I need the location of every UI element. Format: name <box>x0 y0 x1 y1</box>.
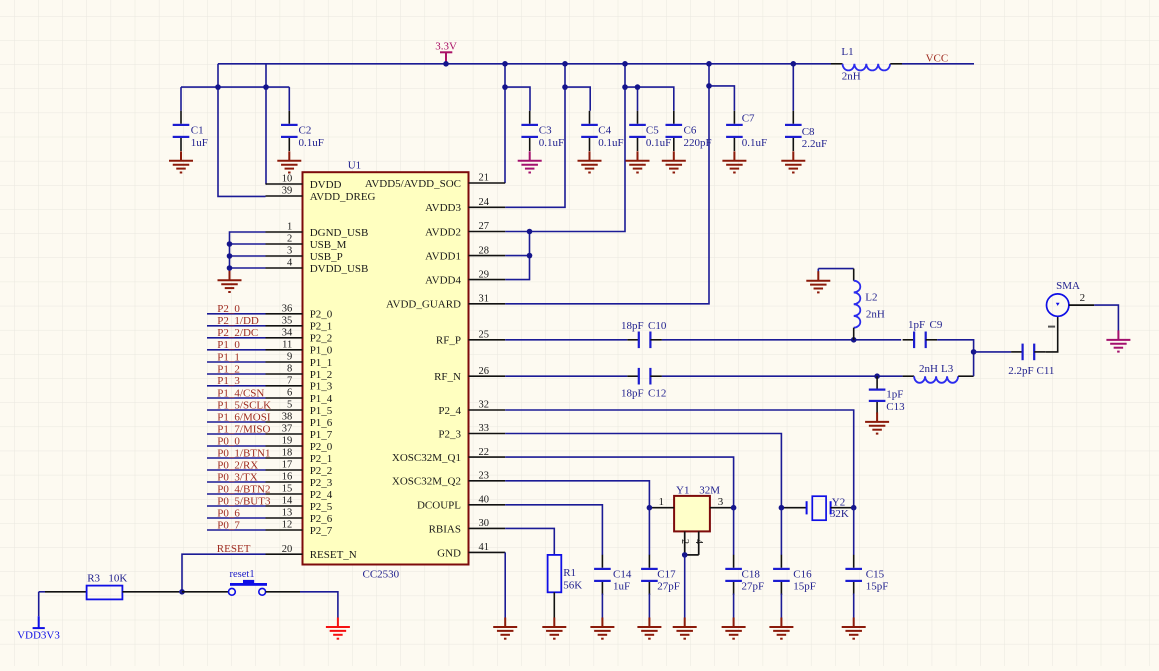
capacitor C16 <box>780 555 782 568</box>
junction <box>215 84 221 90</box>
net P1_0 <box>207 339 266 351</box>
svg-text:39: 39 <box>282 186 293 197</box>
svg-text:C9: C9 <box>930 319 943 331</box>
svg-text:P1_0: P1_0 <box>310 345 333 357</box>
svg-text:1uF: 1uF <box>191 137 208 149</box>
svg-text:8: 8 <box>287 364 292 375</box>
wire USB common <box>230 232 266 268</box>
capacitor C8 <box>792 111 794 124</box>
inductor L1 <box>831 63 843 65</box>
wire C11 node to C11 <box>974 351 1012 353</box>
svg-text:2.2uF: 2.2uF <box>802 138 827 150</box>
svg-text:L2: L2 <box>865 291 877 303</box>
junction <box>706 61 712 67</box>
wire C8 drop <box>792 64 794 111</box>
junction <box>779 505 785 511</box>
capacitor C10 <box>627 339 639 341</box>
wire RF_N left <box>505 375 627 377</box>
pin 9 P1_1 <box>266 352 333 369</box>
pin 16 P2_3 <box>266 472 333 489</box>
junction <box>502 61 508 67</box>
svg-text:34: 34 <box>282 328 293 339</box>
svg-text:DVDD: DVDD <box>310 179 342 191</box>
pin 11 P1_0 <box>266 340 333 357</box>
net P2_1/DD <box>207 315 266 327</box>
inductor L3 <box>903 375 915 377</box>
net P0_7 <box>207 519 266 531</box>
svg-text:7: 7 <box>287 376 292 387</box>
svg-text:11: 11 <box>282 340 292 351</box>
svg-text:P0_6: P0_6 <box>217 507 240 519</box>
ground <box>662 151 686 172</box>
pin 13 P2_6 <box>266 508 333 525</box>
wire RF_N middle <box>662 375 903 377</box>
svg-text:C15: C15 <box>866 568 885 580</box>
svg-text:P2_4: P2_4 <box>438 405 461 417</box>
svg-text:16: 16 <box>282 472 293 483</box>
svg-text:U1: U1 <box>348 160 361 172</box>
svg-text:AVDD1: AVDD1 <box>425 251 461 263</box>
svg-text:C12: C12 <box>648 387 666 399</box>
ground <box>673 618 697 639</box>
svg-text:18pF: 18pF <box>621 320 644 332</box>
pin 15 P2_4 <box>266 484 333 501</box>
svg-text:C6: C6 <box>684 124 697 136</box>
junction <box>562 61 568 67</box>
svg-text:18: 18 <box>282 448 293 459</box>
pin 3 USB_P <box>266 246 343 263</box>
svg-text:25: 25 <box>479 330 490 341</box>
svg-text:P1_3: P1_3 <box>310 381 333 393</box>
svg-text:220pF: 220pF <box>684 137 712 149</box>
svg-text:19: 19 <box>282 436 293 447</box>
pin 20 RESET_N <box>266 544 357 561</box>
net P1_3 <box>207 375 266 387</box>
ground <box>601 594 603 618</box>
capacitor C2 <box>288 111 290 124</box>
net P0_2/RX <box>207 459 266 471</box>
wire RF_P left <box>505 339 627 341</box>
pin 1 DGND_USB <box>266 222 369 239</box>
svg-text:32K: 32K <box>830 508 849 520</box>
pin 30 RBIAS <box>429 518 506 535</box>
crystal Y1 32M <box>649 485 733 555</box>
wire RF_P to C11 node <box>937 340 973 352</box>
svg-text:P2_0: P2_0 <box>217 303 240 315</box>
net P1_1 <box>207 351 266 363</box>
svg-text:33: 33 <box>479 423 490 434</box>
svg-text:18pF: 18pF <box>621 387 644 399</box>
ground <box>853 594 855 618</box>
wire 3.3V rail <box>218 63 831 65</box>
svg-text:23: 23 <box>479 471 490 482</box>
ground <box>780 594 782 618</box>
svg-text:DVDD_USB: DVDD_USB <box>310 263 369 275</box>
pin 14 P2_5 <box>266 496 333 513</box>
svg-text:0.1uF: 0.1uF <box>598 137 623 149</box>
junction <box>227 265 233 271</box>
junction <box>851 505 857 511</box>
svg-text:C18: C18 <box>742 568 761 580</box>
pin 12 P2_7 <box>266 520 333 537</box>
wire rail to pin27 (with C5 C6 branch) <box>505 64 625 232</box>
pin 6 P1_4 <box>266 388 333 405</box>
svg-text:C3: C3 <box>539 124 552 136</box>
svg-text:DCOUPL: DCOUPL <box>417 500 461 512</box>
wire C11 to SMA pin1 <box>1046 316 1058 352</box>
pin 29 AVDD4 <box>425 269 505 286</box>
svg-text:4: 4 <box>287 258 293 269</box>
svg-text:P1_1: P1_1 <box>217 351 240 363</box>
junction <box>179 589 185 595</box>
junction <box>971 349 977 355</box>
ground <box>169 151 193 172</box>
svg-text:P1_1: P1_1 <box>310 357 333 369</box>
capacitor C5 <box>637 111 639 124</box>
capacitor C15 <box>853 555 855 568</box>
svg-text:P0_4/BTN2: P0_4/BTN2 <box>217 483 270 495</box>
resistor R3 10K <box>39 573 179 600</box>
junction <box>562 84 568 90</box>
resistor R1 56K <box>505 528 582 592</box>
svg-text:31: 31 <box>479 294 490 305</box>
pin 36 P2_0 <box>266 304 333 321</box>
pin 39 AVDD_DREG <box>266 186 376 203</box>
junction <box>227 241 233 247</box>
pin 38 P1_6 <box>266 412 333 429</box>
svg-text:AVDD5/AVDD_SOC: AVDD5/AVDD_SOC <box>365 178 461 190</box>
junction <box>791 61 797 67</box>
svg-text:0.1uF: 0.1uF <box>646 137 671 149</box>
svg-text:AVDD4: AVDD4 <box>425 275 461 287</box>
svg-text:1pF: 1pF <box>908 319 925 331</box>
svg-text:AVDD2: AVDD2 <box>425 226 461 238</box>
svg-text:P2_4: P2_4 <box>310 489 333 501</box>
wire Y1 pin3 down to C18 <box>733 508 735 555</box>
svg-text:27pF: 27pF <box>657 581 680 593</box>
ground <box>518 151 542 172</box>
svg-text:P0_0: P0_0 <box>217 435 240 447</box>
svg-text:AVDD_DREG: AVDD_DREG <box>310 191 376 203</box>
svg-text:C2: C2 <box>299 124 312 136</box>
svg-text:P2_3: P2_3 <box>310 477 333 489</box>
wire Y1 pin1 down to C17 <box>648 508 650 555</box>
svg-text:2.2pF: 2.2pF <box>1008 365 1033 377</box>
power 3.3V <box>440 52 452 64</box>
svg-text:13: 13 <box>282 508 293 519</box>
connector SMA <box>1047 280 1095 326</box>
pin 25 RF_P <box>436 330 505 347</box>
svg-text:27: 27 <box>479 221 490 232</box>
svg-text:XOSC32M_Q1: XOSC32M_Q1 <box>392 452 461 464</box>
svg-text:C14: C14 <box>613 568 632 580</box>
pin 31 AVDD_GUARD <box>386 294 505 311</box>
junction <box>622 61 628 67</box>
pin 34 P2_2 <box>266 328 333 345</box>
wire P2_4 to Y2 right / C15 <box>505 410 854 508</box>
svg-text:22: 22 <box>479 447 490 458</box>
pin 21 AVDD5/AVDD_SOC <box>365 173 505 190</box>
svg-text:2: 2 <box>679 539 690 544</box>
svg-text:10: 10 <box>282 174 293 185</box>
junction <box>502 84 508 90</box>
svg-text:1uF: 1uF <box>613 581 630 593</box>
net P0_3/TX <box>207 471 266 483</box>
wire rail branch to pin10 <box>265 64 268 184</box>
ground <box>722 151 746 172</box>
svg-text:RESET: RESET <box>217 543 251 555</box>
svg-text:2nH: 2nH <box>866 309 885 321</box>
wire VCC <box>902 63 974 65</box>
svg-text:21: 21 <box>479 173 490 184</box>
svg-text:27pF: 27pF <box>742 581 765 593</box>
wire R1 to ground <box>553 592 555 617</box>
svg-text:P1_7/MISO: P1_7/MISO <box>217 423 270 435</box>
svg-text:RF_P: RF_P <box>436 335 461 347</box>
junction <box>527 229 533 235</box>
svg-text:P2_0: P2_0 <box>310 441 333 453</box>
wire rail to pin21 (with C3 branch) <box>504 64 506 183</box>
wire L3 up to C11 node <box>973 352 975 376</box>
svg-text:1: 1 <box>659 496 665 508</box>
svg-text:P2_1: P2_1 <box>310 321 333 333</box>
svg-text:P2_0: P2_0 <box>310 309 333 321</box>
junction <box>682 552 688 558</box>
svg-text:15pF: 15pF <box>866 581 889 593</box>
svg-text:6: 6 <box>287 388 292 399</box>
capacitor C1 <box>180 111 182 124</box>
ground <box>648 594 650 618</box>
svg-text:L1: L1 <box>841 46 853 58</box>
svg-text:C10: C10 <box>648 320 667 332</box>
svg-text:P1_5: P1_5 <box>310 405 333 417</box>
net P0_4/BTN2 <box>207 483 270 495</box>
junction <box>851 337 857 343</box>
pin 7 P1_3 <box>266 376 333 393</box>
svg-text:P2_3: P2_3 <box>438 428 461 440</box>
svg-text:P0_3/TX: P0_3/TX <box>217 471 257 483</box>
svg-text:4: 4 <box>693 539 704 544</box>
svg-text:9: 9 <box>287 352 292 363</box>
svg-text:P1_4: P1_4 <box>310 393 333 405</box>
pin 17 P2_2 <box>266 460 333 477</box>
svg-text:C16: C16 <box>793 568 812 580</box>
wire rail to pin24 (with C4 branch) <box>505 64 565 208</box>
svg-text:15pF: 15pF <box>793 581 816 593</box>
net P0_6 <box>207 507 266 519</box>
svg-text:P2_1: P2_1 <box>310 453 333 465</box>
capacitor C7 <box>733 111 735 124</box>
svg-text:24: 24 <box>479 197 490 208</box>
junction <box>647 505 653 511</box>
ground <box>578 151 602 172</box>
net P1_6/MOSI <box>207 411 271 423</box>
svg-text:5: 5 <box>287 400 292 411</box>
ground <box>733 594 735 618</box>
svg-text:41: 41 <box>479 542 490 553</box>
svg-text:P0_1/BTN1: P0_1/BTN1 <box>217 447 270 459</box>
svg-text:32M: 32M <box>699 485 720 497</box>
svg-text:1pF: 1pF <box>886 388 903 400</box>
svg-text:P2_2/DC: P2_2/DC <box>217 327 258 339</box>
svg-text:Y2: Y2 <box>832 496 845 508</box>
svg-text:L3: L3 <box>941 363 954 375</box>
svg-text:0.1uF: 0.1uF <box>742 137 767 149</box>
junction <box>263 84 269 90</box>
net P1_7/MISO <box>207 423 271 435</box>
wire pin41 GND down <box>504 552 506 617</box>
wire C1 drop <box>180 87 182 111</box>
svg-text:P1_2: P1_2 <box>310 369 333 381</box>
pin 33 P2_3 <box>438 423 505 440</box>
wire XOSC32M_Q2 to Y1 pin1 <box>505 481 649 508</box>
wire C1-C2 top link <box>181 86 289 88</box>
capacitor C6 <box>673 111 675 124</box>
capacitor C4 <box>589 111 591 124</box>
svg-text:2: 2 <box>287 234 292 245</box>
capacitor C14 <box>601 555 603 568</box>
pin 5 P1_5 <box>266 400 333 417</box>
pin 35 P2_1 <box>266 316 333 333</box>
svg-text:RF_N: RF_N <box>434 371 461 383</box>
pin 19 P2_0 <box>266 436 333 453</box>
svg-text:37: 37 <box>282 424 293 435</box>
net P2_2/DC <box>207 327 266 339</box>
svg-text:P2_5: P2_5 <box>310 501 333 513</box>
pin 27 AVDD2 <box>425 221 505 238</box>
wire AVDD1 AVDD4 link <box>505 232 529 280</box>
svg-text:reset1: reset1 <box>230 569 255 580</box>
svg-text:0.1uF: 0.1uF <box>299 137 324 149</box>
svg-text:AVDD3: AVDD3 <box>425 202 461 214</box>
svg-text:Y1: Y1 <box>676 485 689 497</box>
svg-text:C7: C7 <box>742 113 755 125</box>
ground <box>865 412 889 433</box>
wire Y2 right down to C15 <box>853 508 855 555</box>
svg-text:40: 40 <box>479 495 490 506</box>
svg-text:28: 28 <box>479 245 490 256</box>
junction <box>635 84 641 90</box>
svg-text:XOSC32M_Q2: XOSC32M_Q2 <box>392 476 461 488</box>
net P2_0 <box>207 303 266 315</box>
crystal Y2 32K <box>781 496 853 520</box>
svg-text:SMA: SMA <box>1056 280 1080 292</box>
switch reset1 <box>182 569 300 595</box>
svg-text:30: 30 <box>479 518 490 529</box>
junction <box>443 61 449 67</box>
svg-text:C1: C1 <box>191 124 204 136</box>
svg-text:P0_2/RX: P0_2/RX <box>217 459 258 471</box>
svg-text:CC2530: CC2530 <box>363 569 400 581</box>
svg-text:C4: C4 <box>598 124 611 136</box>
wire rail to C1C2 branch left <box>218 64 266 197</box>
svg-text:17: 17 <box>282 460 293 471</box>
ground <box>781 151 805 172</box>
svg-text:38: 38 <box>282 412 293 423</box>
svg-text:12: 12 <box>282 520 293 531</box>
net P1_2 <box>207 363 266 375</box>
pin 8 P1_2 <box>266 364 333 381</box>
svg-text:P1_6/MOSI: P1_6/MOSI <box>217 411 271 423</box>
net P1_4/CSN <box>207 387 266 399</box>
ground <box>326 618 350 639</box>
svg-text:1: 1 <box>287 222 292 233</box>
svg-text:VDD3V3: VDD3V3 <box>17 630 60 642</box>
wire Y2 left down to C16 <box>780 508 782 555</box>
pin 22 XOSC32M_Q1 <box>392 447 505 464</box>
net P1_5/SCLK <box>207 399 271 411</box>
pin 37 P1_7 <box>266 424 333 441</box>
pin 40 DCOUPL <box>417 495 505 512</box>
svg-text:R3: R3 <box>87 573 100 585</box>
capacitor C3 <box>529 111 531 124</box>
ground <box>818 268 853 270</box>
svg-text:14: 14 <box>282 496 293 507</box>
svg-text:C17: C17 <box>657 568 676 580</box>
pin 41 GND <box>437 542 505 559</box>
net P0_1/BTN1 <box>207 447 270 459</box>
svg-text:35: 35 <box>282 316 293 327</box>
wire SMA pin2 to ground <box>1094 305 1118 330</box>
pin 10 DVDD <box>266 174 342 191</box>
svg-text:2nH: 2nH <box>842 70 861 82</box>
svg-text:P2_6: P2_6 <box>310 513 333 525</box>
svg-text:2nH: 2nH <box>919 363 938 375</box>
svg-text:P1_4/CSN: P1_4/CSN <box>217 387 264 399</box>
svg-text:P2_7: P2_7 <box>310 525 333 537</box>
svg-text:P2_1/DD: P2_1/DD <box>217 315 259 327</box>
capacitor C11 <box>1011 351 1023 353</box>
svg-text:R1: R1 <box>563 567 576 579</box>
junction <box>874 373 880 379</box>
capacitor C18 <box>733 555 735 568</box>
inductor L2 <box>853 269 855 281</box>
svg-text:RESET_N: RESET_N <box>310 549 357 561</box>
svg-text:RBIAS: RBIAS <box>429 523 461 535</box>
svg-text:AVDD_GUARD: AVDD_GUARD <box>386 299 461 311</box>
svg-text:10K: 10K <box>108 573 127 585</box>
svg-text:C11: C11 <box>1037 365 1055 377</box>
svg-text:P2_2: P2_2 <box>310 465 333 477</box>
wire XOSC32M_Q1 to Y1 pin3 <box>505 457 733 508</box>
svg-text:36: 36 <box>282 304 293 315</box>
svg-text:P1_6: P1_6 <box>310 417 333 429</box>
pin 32 P2_4 <box>438 400 505 417</box>
svg-text:VCC: VCC <box>926 53 949 65</box>
svg-text:P1_0: P1_0 <box>217 339 240 351</box>
svg-text:P1_3: P1_3 <box>217 375 240 387</box>
wire RF_P middle <box>662 339 901 341</box>
svg-text:DGND_USB: DGND_USB <box>310 227 369 239</box>
pin 28 AVDD1 <box>425 245 505 262</box>
junction <box>527 253 533 259</box>
wire C2 drop <box>288 87 290 111</box>
svg-text:C8: C8 <box>802 126 815 138</box>
pin 4 DVDD_USB <box>266 258 369 275</box>
wire Y1 pins24 to ground <box>684 555 686 618</box>
net P0_5/BUT3 <box>207 495 271 507</box>
wire P2_3 to Y2 left / C16 <box>505 434 781 508</box>
pin 23 XOSC32M_Q2 <box>392 471 505 488</box>
svg-text:P2_2: P2_2 <box>310 333 333 345</box>
capacitor C12 <box>627 375 639 377</box>
wire R3 to junction <box>179 591 182 593</box>
svg-text:3: 3 <box>718 496 724 508</box>
IC U1 CC2530 <box>266 160 506 581</box>
svg-text:P1_7: P1_7 <box>310 429 333 441</box>
svg-text:C5: C5 <box>646 124 659 136</box>
wire DCOUPL to C14 <box>505 505 602 555</box>
